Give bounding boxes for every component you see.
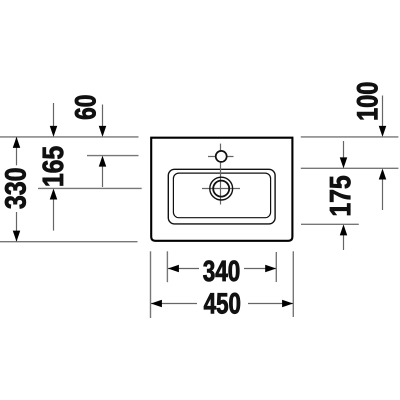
dimension 60 arrow down to back edge [99,126,107,137]
washbasin outer outline [151,138,292,241]
extension line back edge left [0,136,139,138]
dimension 450 right segment [248,303,293,305]
dimension 340 arrow left [168,265,179,273]
extension line 340 right [275,252,277,282]
basin rim inner edge [173,173,270,218]
dimension 100 lower arrow tail [382,179,384,210]
dimension 165 arrow up to drain center [50,189,58,200]
faucet hole crosshair horizontal [208,156,234,158]
dimension 175 arrow up to basin front rim [340,224,348,235]
dimension 60 arrow up to faucet center [99,156,107,167]
dimension 175 arrow down to rim line [340,157,348,168]
extension line basin front rim right [301,223,359,225]
basin rim outer edge [168,169,275,224]
dimension 330 line upper segment [16,137,18,165]
extension line 450 left [150,251,152,318]
dimension 165 upper arrow tail [53,103,55,127]
dimension 450 left segment [151,303,197,305]
drain inner circle [213,181,229,197]
faucet hole [216,151,227,162]
dimension 100 label [357,83,378,120]
dimension 60 label [75,96,96,120]
extension line front edge left [0,241,138,243]
dimension 340 arrow right [265,265,276,273]
dimension 165 arrow down to back edge [50,126,58,137]
dimension 330 line lower segment [16,212,18,242]
dimension 175 upper arrow tail [343,141,345,158]
extension line 340 left [166,251,168,282]
drain crosshair horizontal [202,188,240,190]
dimension 340 label [203,260,239,281]
dimension 450 arrow left [151,300,162,308]
dimension 100 arrow down to back edge [379,126,387,137]
dimension 100 upper arrow tail [382,96,384,128]
dimension 175 label [330,176,351,215]
extension line faucet center left [87,155,139,157]
extension line back edge right [301,136,399,138]
dimension 165 label [42,147,63,186]
dimension 100 arrow up to basin rim line [379,169,387,180]
dimension 330 arrow up [13,137,21,148]
extension line drain center left [38,187,142,189]
dimension 330 arrow down [13,231,21,242]
dimension 165 lower arrow tail [53,199,55,231]
dimension 340 right segment [244,268,276,270]
centerline vertical through faucet and drain [220,144,222,205]
dimension 60 lower arrow tail [102,166,104,187]
extension line basin rim right [301,167,399,169]
dimension 450 arrow right [282,300,293,308]
dimension 340 left segment [168,268,199,270]
dimension 175 lower arrow tail [343,235,345,250]
extension line 450 right [292,251,294,317]
dimension 450 label [204,293,240,314]
dimension 60 upper arrow tail [102,105,104,128]
dimension 330 label [5,169,26,209]
drain outer circle [210,177,233,200]
